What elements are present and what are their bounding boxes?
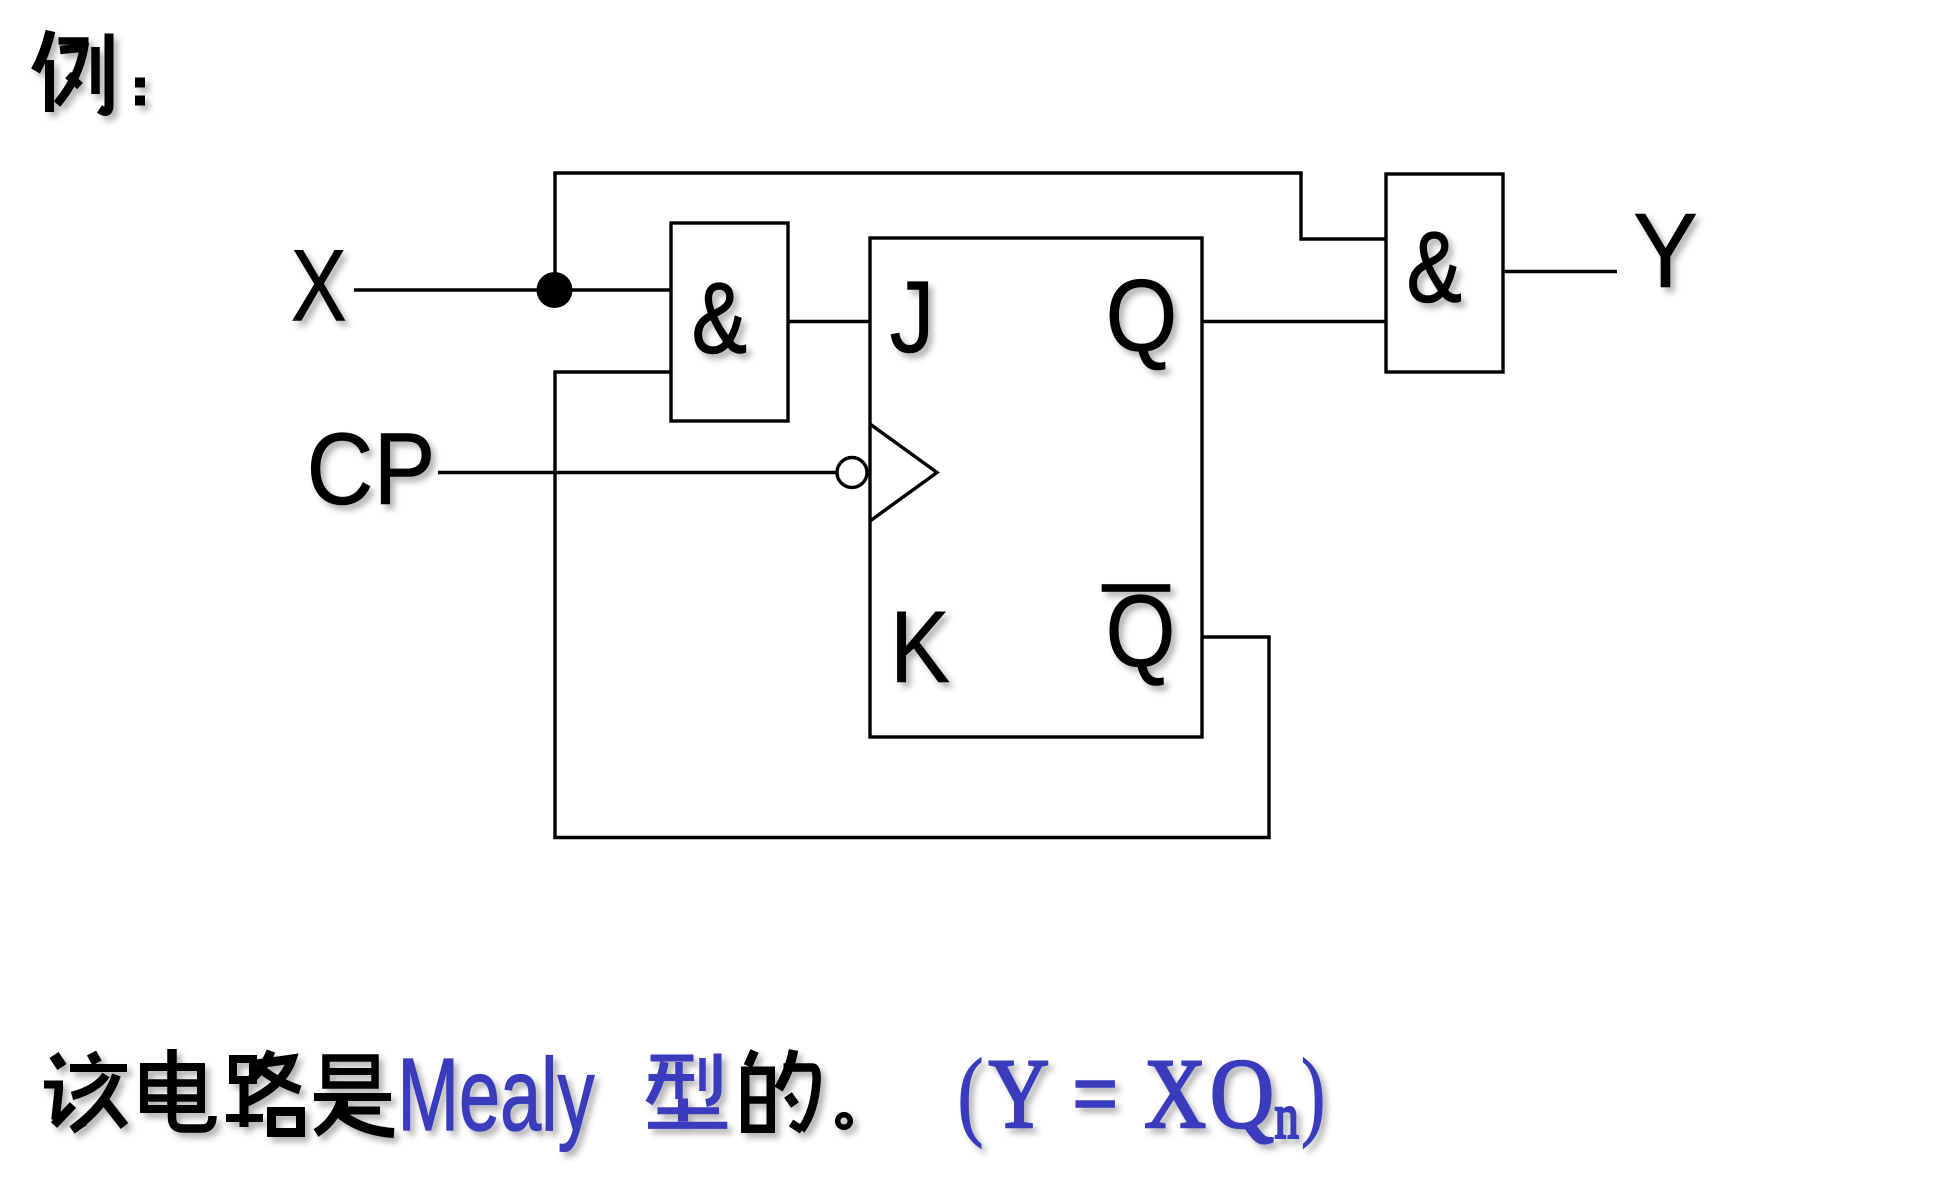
formula (Y = XQn) blue serif xyxy=(958,1038,1326,1153)
node X junction dot xyxy=(537,272,573,308)
wire AND1 output to J xyxy=(788,320,870,323)
colon of title xyxy=(135,78,145,106)
hanzi 例 xyxy=(36,31,110,112)
hanzi 该 xyxy=(44,1053,127,1130)
title 例: xyxy=(36,31,146,112)
svg-text:n: n xyxy=(1275,1081,1299,1153)
svg-text:Mealy: Mealy xyxy=(398,1037,595,1152)
svg-text:(: ( xyxy=(958,1038,984,1149)
clock inversion bubble xyxy=(837,458,867,488)
clock edge triangle xyxy=(870,424,937,521)
svg-text:Y: Y xyxy=(989,1038,1050,1149)
wire X input xyxy=(354,288,671,291)
svg-text:Q: Q xyxy=(1210,1038,1274,1149)
svg-text:&: & xyxy=(692,263,747,375)
circuit labels xyxy=(291,192,1698,704)
AND gate G1 box xyxy=(671,223,788,421)
JK flip-flop FF1 box xyxy=(870,238,1202,737)
wire top from X node to AND2 top input xyxy=(555,173,1386,290)
AND gate G2 box xyxy=(1386,174,1503,372)
overbar of Qbar xyxy=(1102,585,1170,592)
svg-text:Q: Q xyxy=(1106,259,1178,373)
hanzi 路 xyxy=(226,1051,301,1133)
svg-text:X: X xyxy=(291,229,347,343)
svg-text:J: J xyxy=(890,260,935,374)
svg-text:): ) xyxy=(1301,1038,1325,1149)
svg-text:=: = xyxy=(1073,1038,1118,1149)
hanzi 型 blue xyxy=(648,1054,727,1126)
hanzi 电 xyxy=(144,1049,213,1129)
svg-text:&: & xyxy=(1407,212,1462,324)
wire AND2 output to Y xyxy=(1503,270,1617,273)
svg-text:X: X xyxy=(1144,1038,1206,1149)
ideographic full stop xyxy=(838,1115,851,1128)
svg-text:K: K xyxy=(890,590,950,704)
svg-text:Y: Y xyxy=(1633,192,1698,310)
hanzi 的 xyxy=(745,1050,817,1130)
bottom sentence xyxy=(44,1037,1325,1153)
wire Q output to AND2 xyxy=(1202,320,1386,323)
hanzi 是 xyxy=(314,1058,394,1133)
wire CP input xyxy=(438,471,837,474)
svg-text:CP: CP xyxy=(307,412,436,526)
wire Qbar feedback to AND1 second input xyxy=(555,372,1269,838)
